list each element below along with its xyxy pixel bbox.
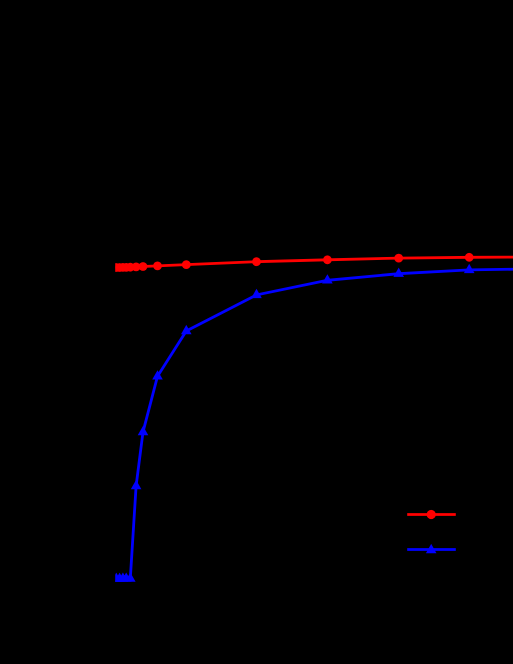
plotted data series (clipped at invisible axes left edge) <box>111 253 513 582</box>
legend: red entry (line + circle marker) <box>407 510 456 519</box>
blue series line <box>116 269 513 579</box>
red series circle markers <box>112 253 474 272</box>
blue series triangle markers <box>111 264 475 582</box>
red series line <box>116 257 513 268</box>
legend: blue entry (line + triangle marker) <box>407 544 456 553</box>
